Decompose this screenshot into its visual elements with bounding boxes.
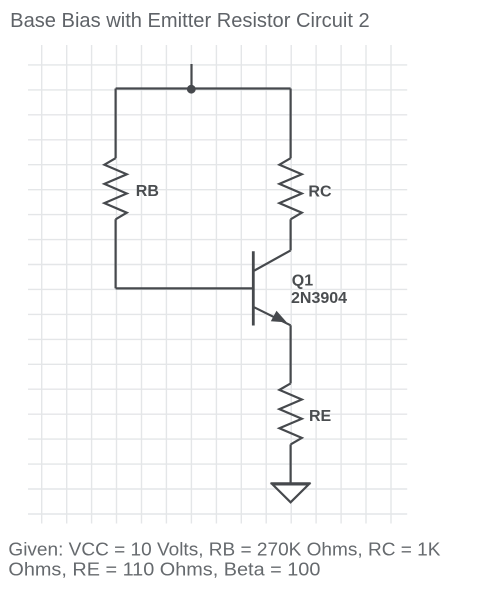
svg-text:RB: RB [136, 183, 159, 200]
svg-text:Q1: Q1 [292, 272, 313, 289]
svg-text:RE: RE [309, 408, 332, 425]
svg-text:2N3904: 2N3904 [291, 290, 347, 307]
svg-text:Given: VCC = 10 Volts, RB = 27: Given: VCC = 10 Volts, RB = 270K Ohms, R… [8, 539, 440, 559]
svg-text:Ohms, RE = 110 Ohms, Beta = 10: Ohms, RE = 110 Ohms, Beta = 100 [8, 559, 320, 579]
svg-text:Base Bias with Emitter Resisto: Base Bias with Emitter Resistor Circuit … [10, 10, 370, 32]
svg-text:RC: RC [308, 183, 332, 200]
